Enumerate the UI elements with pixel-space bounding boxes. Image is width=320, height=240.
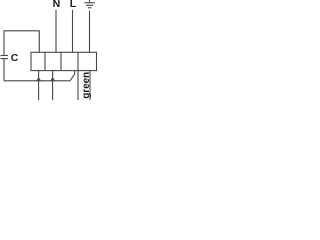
svg-text:C: C [11, 52, 19, 64]
node L label [70, 0, 77, 10]
svg-text:L: L [70, 0, 77, 10]
wire from terminal 2 down to bottom edge [52, 71, 54, 100]
wire from divider 3 down to bottom edge [77, 71, 79, 100]
terminal divider 2 [60, 52, 62, 70]
svg-text:green: green [81, 72, 92, 99]
junction arrow on terminal-2 wire [50, 77, 55, 81]
bus wire (bottom horizontal) [4, 80, 70, 82]
node N label [53, 0, 61, 10]
terminal divider 3 [77, 52, 79, 70]
green wire label [81, 72, 92, 99]
terminal divider 1 [44, 52, 46, 70]
wire from L to terminal block [72, 10, 74, 53]
wire from N to terminal block [55, 10, 57, 53]
wire from ground to terminal block [89, 11, 91, 53]
svg-text:N: N [53, 0, 61, 10]
diagonal jog wire from bus to terminal 3 [70, 71, 75, 81]
junction arrow on terminal-1 wire [36, 77, 41, 81]
capacitor C plates [1, 56, 9, 59]
terminal block outline [31, 52, 97, 70]
ground (protective earth) symbol [84, 0, 95, 8]
wire from terminal 1 down to bottom edge [38, 71, 40, 100]
wire loop from capacitor top to terminal 1 [4, 31, 39, 56]
capacitor C value label [11, 52, 19, 64]
wire from capacitor bottom to bus [3, 59, 5, 81]
wire from terminal 4 down to bottom edge [89, 71, 91, 100]
